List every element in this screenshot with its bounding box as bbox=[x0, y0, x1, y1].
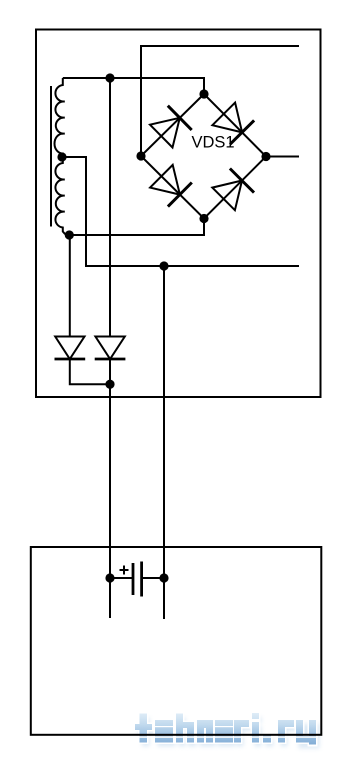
wire D1 cathode to joint bbox=[70, 359, 110, 384]
node junction coil-top / diode line bbox=[105, 73, 114, 82]
wire center tap to lower rail bbox=[62, 157, 299, 266]
transformer T1 core bbox=[50, 86, 52, 227]
label plus polarity bbox=[120, 566, 129, 575]
transformer T1 winding cusp ticks bbox=[62, 102, 65, 212]
bridge diode bottom-right bbox=[212, 169, 254, 211]
bridge VDS1 diamond edges bbox=[141, 94, 266, 219]
enclosure box 2 (filter block) bbox=[31, 547, 322, 735]
bridge diode bottom-left bbox=[150, 165, 192, 207]
wire D2 cathode down to capacitor plus bbox=[109, 359, 111, 618]
node bridge left vertex bbox=[136, 151, 145, 160]
node bridge bottom vertex bbox=[199, 214, 208, 223]
wire bridge right vertex stub bbox=[266, 156, 299, 158]
diode D2 bbox=[95, 337, 126, 360]
watermark separator strip bbox=[134, 736, 318, 737]
bridge diode top-left bbox=[150, 106, 192, 148]
capacitor C1 bbox=[110, 562, 164, 597]
svg-text:VDS1: VDS1 bbox=[192, 134, 235, 152]
node junction coil bottom bbox=[65, 230, 74, 239]
wire AC1 down to diode D2 anode bbox=[109, 78, 111, 337]
transformer T1 winding bbox=[54, 78, 69, 235]
bridge diode top-right bbox=[212, 103, 254, 145]
node bridge right vertex bbox=[261, 152, 270, 161]
wire coil top to bridge top bbox=[63, 78, 204, 94]
wire lower rail down to capacitor minus bbox=[163, 266, 165, 619]
diode D1 bbox=[55, 337, 86, 360]
watermark tahnari.ru bbox=[134, 712, 320, 749]
node capacitor minus bbox=[159, 573, 168, 582]
wire coil bottom down to diode D1 anode bbox=[69, 235, 71, 337]
node junction lower rail / capacitor branch bbox=[159, 261, 168, 270]
node junction diode cathodes bbox=[105, 380, 114, 389]
node center tap bbox=[57, 152, 66, 161]
node capacitor plus bbox=[105, 573, 114, 582]
node bridge top vertex bbox=[199, 89, 208, 98]
enclosure box 1 (rectifier block) bbox=[36, 30, 321, 398]
wire bridge left vertex up to top rail bbox=[141, 46, 299, 156]
wire bridge bottom to coil bottom bbox=[69, 219, 204, 236]
